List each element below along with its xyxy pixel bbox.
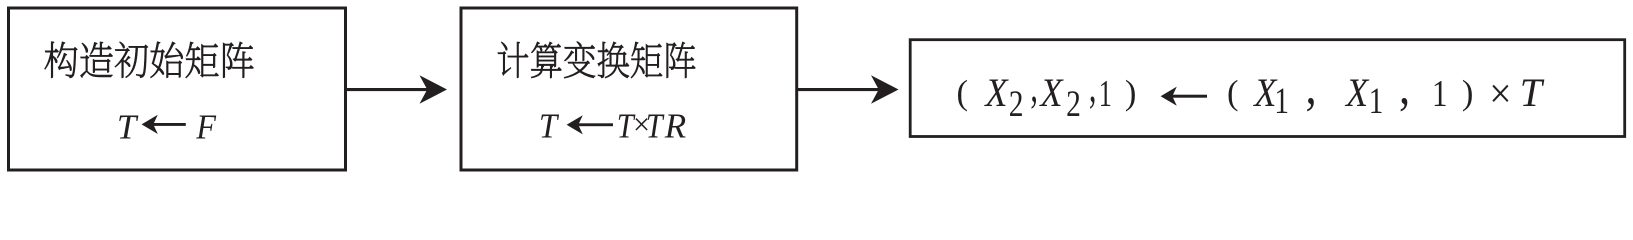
svg-text:T: T [646,107,665,146]
svg-text:(: ( [957,74,969,112]
svg-text:X: X [1344,70,1369,115]
box2 title text 计算变换矩阵 [498,42,695,79]
svg-text:,: , [1030,59,1038,112]
svg-text:1: 1 [1432,73,1447,115]
svg-text:X: X [984,70,1009,115]
box1 title text 构造初始矩阵 [45,42,254,78]
svg-text:1: 1 [1099,73,1112,115]
box3 left-arrow ← [1161,87,1207,106]
svg-text:X: X [1039,70,1064,115]
svg-text:2: 2 [1066,84,1081,125]
box1 formula left-arrow ← [142,115,186,134]
svg-text:,: , [1089,59,1097,112]
svg-text:2: 2 [1009,84,1024,125]
svg-text:T: T [117,107,139,146]
svg-text:): ) [1462,74,1474,112]
svg-text:×: × [1489,72,1511,118]
arrow from box1 to box2 [346,75,447,104]
svg-text:T: T [1520,70,1545,115]
box2 formula left-arrow ← [567,115,613,134]
svg-text:(: ( [1227,74,1239,112]
svg-text:,: , [1399,59,1410,116]
svg-text:1: 1 [1369,81,1384,122]
svg-text:T: T [539,107,560,146]
flowchart box 2: 计算变换矩阵 [461,8,797,170]
flowchart box 1: 构造初始矩阵 [9,8,346,170]
arrow from box2 to box3 [797,75,899,104]
svg-text:): ) [1125,74,1137,112]
svg-text:,: , [1306,59,1317,116]
svg-text:F: F [195,107,216,146]
svg-text:R: R [664,107,686,146]
flowchart box 3: result formula [910,40,1624,137]
svg-text:1: 1 [1274,81,1289,122]
